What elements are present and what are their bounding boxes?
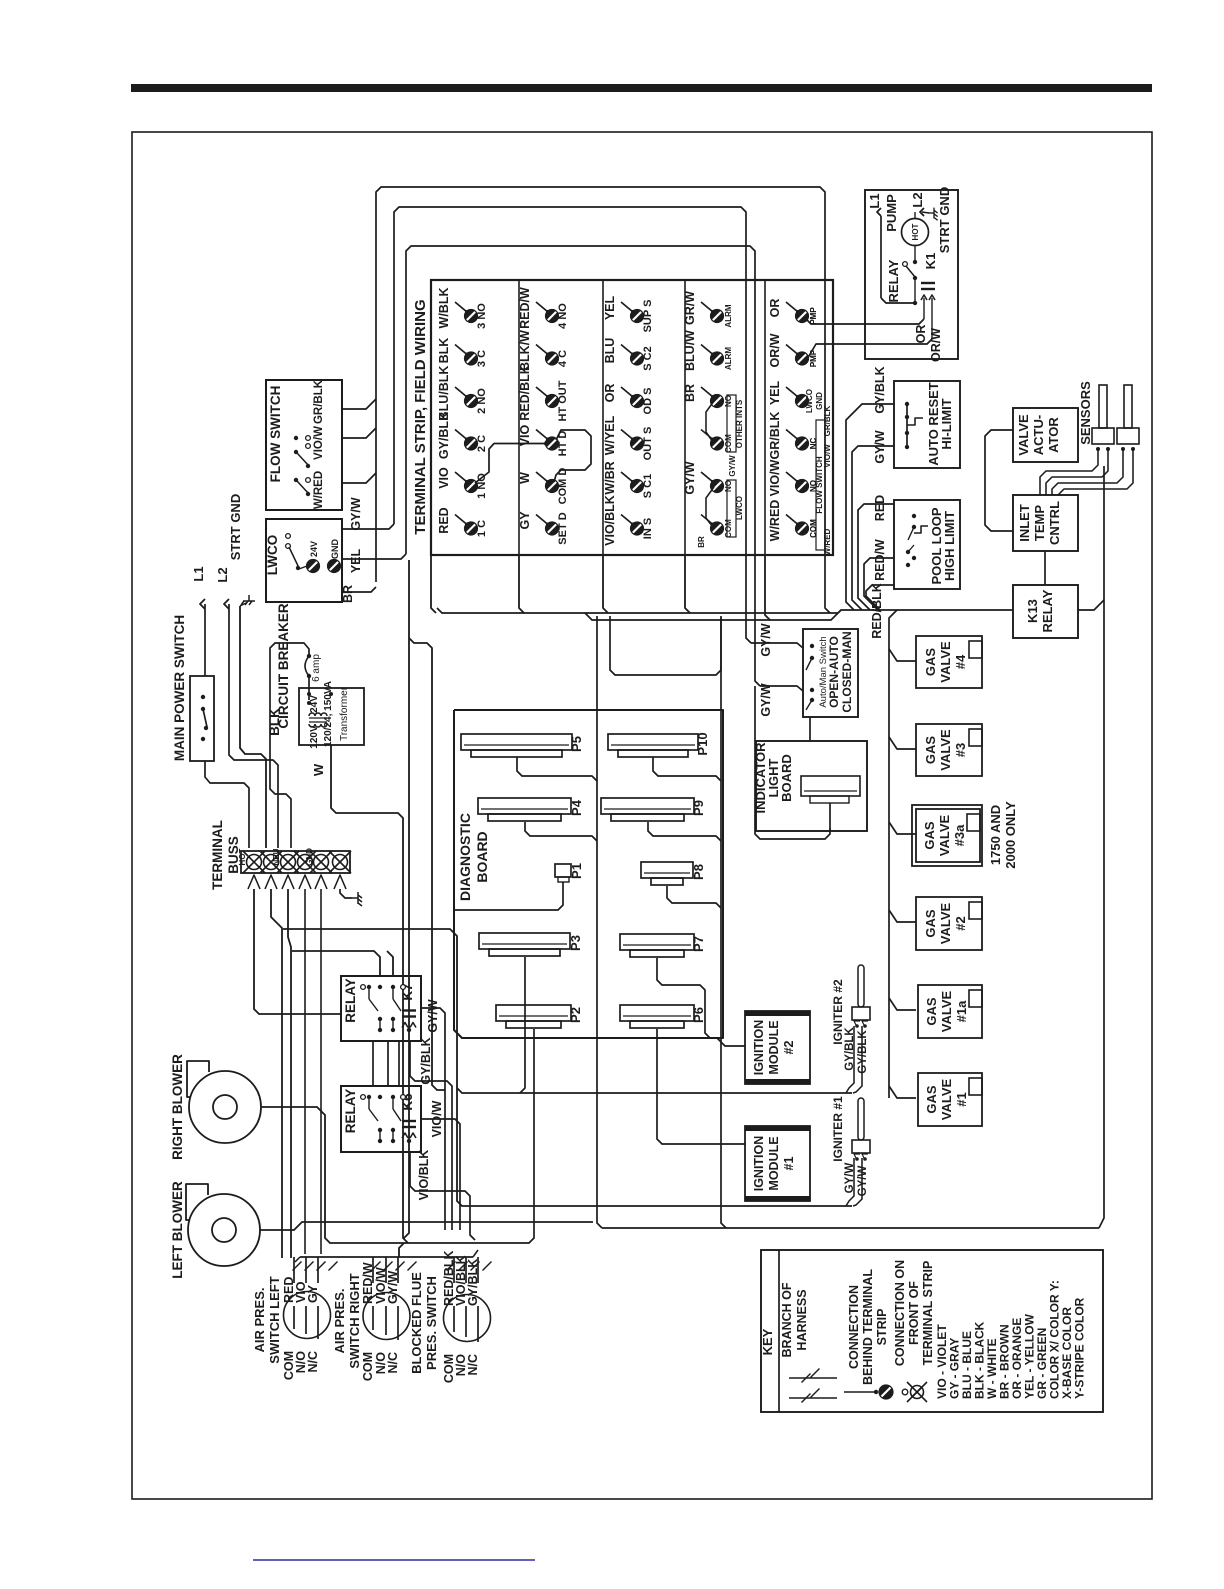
svg-text:P10: P10: [695, 732, 710, 755]
footer link underline: [253, 1559, 535, 1561]
svg-text:AIR PRES.: AIR PRES.: [332, 1288, 347, 1353]
connector P6: [620, 1005, 694, 1021]
svg-text:BOARD: BOARD: [779, 754, 794, 802]
svg-text:MODULE: MODULE: [767, 1136, 781, 1190]
gas valve #3a feed: [889, 822, 916, 834]
igniter IGNITER #1: [858, 1098, 864, 1140]
terminal COM (W/RED): [786, 515, 798, 525]
left harness vertical px432: [409, 638, 445, 1090]
svg-text:RED/W: RED/W: [873, 539, 887, 581]
svg-text:L2: L2: [910, 192, 925, 207]
svg-text:2000 ONLY: 2000 ONLY: [1003, 801, 1018, 869]
svg-text:NC: NC: [809, 438, 818, 450]
svg-text:GY/W: GY/W: [857, 1166, 869, 1197]
harness branch slashes: [293, 1262, 302, 1271]
lwco contacts: [286, 534, 291, 539]
flow switch wires to trunk A: [342, 399, 376, 409]
svg-text:#1: #1: [954, 1092, 969, 1106]
transformer W output wire: [331, 745, 408, 1243]
K6 output wires: [421, 1119, 460, 1230]
terminal HT OUT (RED/BLK): [536, 387, 548, 397]
P7 wire: [657, 958, 710, 1038]
svg-text:W: W: [311, 763, 326, 776]
svg-text:YEL: YEL: [349, 548, 363, 573]
svg-text:STRIP: STRIP: [875, 1309, 889, 1346]
svg-text:GAS: GAS: [923, 648, 938, 677]
svg-text:VIO/W: VIO/W: [313, 426, 325, 460]
connector P4: [478, 798, 571, 814]
buss lead funnel 3: [282, 875, 294, 889]
svg-text:4 NO: 4 NO: [557, 303, 569, 329]
svg-text:120V: 120V: [309, 725, 320, 749]
svg-text:RED/W: RED/W: [518, 287, 532, 329]
svg-text:P2: P2: [568, 1007, 583, 1023]
svg-text:INLET: INLET: [1017, 504, 1032, 542]
igniter IGNITER #2: [858, 965, 864, 1007]
pump relay K1 box: [865, 190, 958, 359]
svg-text:AIR PRES.: AIR PRES.: [252, 1287, 267, 1352]
svg-text:OR/W: OR/W: [768, 333, 782, 367]
K7 output wires: [421, 1008, 445, 1230]
svg-text:RELAY: RELAY: [886, 259, 901, 302]
svg-text:OD S: OD S: [642, 388, 654, 415]
svg-text:1 C: 1 C: [476, 520, 488, 537]
svg-text:P1: P1: [569, 863, 584, 879]
svg-text:1750 AND: 1750 AND: [988, 805, 1003, 865]
terminal SUP S (YEL): [621, 302, 633, 312]
svg-text:RED/W: RED/W: [361, 1262, 375, 1304]
svg-text:PMP: PMP: [809, 307, 818, 325]
terminal S C2 (BLU): [621, 345, 633, 355]
svg-text:HARNESS: HARNESS: [795, 1289, 809, 1350]
svg-text:GY/BLK: GY/BLK: [873, 366, 887, 413]
gas valve #3 feed: [889, 737, 916, 749]
svg-text:VIO/BLK: VIO/BLK: [417, 1150, 431, 1201]
svg-text:2 NO: 2 NO: [476, 388, 488, 414]
strt gnd symbol and GND conductor: [241, 595, 255, 605]
branch symbols: [789, 1377, 837, 1379]
svg-text:#1a: #1a: [954, 1000, 969, 1022]
svg-text:GY/BLK: GY/BLK: [466, 1259, 480, 1306]
gas valve #1a feed: [889, 998, 916, 1010]
wire harness trunk A (BR / flow switch loop): [376, 187, 830, 613]
svg-text:DIAGNOSTIC: DIAGNOSTIC: [457, 813, 473, 901]
svg-text:STRT GND: STRT GND: [937, 187, 952, 253]
lwco GND screw: [328, 560, 341, 573]
svg-text:GY/W: GY/W: [683, 461, 697, 495]
GY/W wire to switch lower: [760, 686, 803, 691]
P2 wire: [404, 1029, 534, 1243]
svg-text:IGNITION: IGNITION: [752, 1020, 766, 1076]
gas valve #3a: [912, 805, 982, 866]
svg-text:RELAY: RELAY: [343, 978, 358, 1023]
inlet to K13 wire: [1044, 551, 1046, 585]
trunk T2 down from bus: [721, 616, 726, 1228]
svg-text:RELAY: RELAY: [343, 1089, 358, 1134]
svg-text:VALVE: VALVE: [937, 814, 952, 856]
svg-text:W/RED: W/RED: [823, 528, 832, 555]
svg-text:W/YEL: W/YEL: [603, 415, 617, 455]
svg-text:OR/W: OR/W: [929, 328, 943, 362]
flow switch box: [266, 380, 342, 510]
breaker feed wire: [270, 643, 309, 848]
svg-text:GAS: GAS: [924, 1085, 939, 1114]
terminal NO (BR): [701, 387, 713, 397]
K6-K7 link wires: [372, 1041, 374, 1086]
FLOW SWITCH bracket: [816, 420, 825, 550]
svg-text:GY: GY: [518, 511, 532, 530]
pressure switch AIR PRES. SWITCH LEFT: [284, 1292, 331, 1339]
ignition module #1: [745, 1126, 810, 1201]
svg-text:COM: COM: [724, 519, 733, 538]
buss lead funnel 5: [315, 875, 327, 889]
OTHER INTS bracket: [727, 395, 736, 452]
indicator connector: [801, 776, 860, 796]
connector P2: [496, 1005, 571, 1021]
svg-text:HT OUT: HT OUT: [557, 380, 569, 421]
svg-text:L1: L1: [191, 566, 206, 581]
connector P8: [641, 862, 693, 878]
terminal ALRM (GR/W): [701, 302, 713, 312]
LEFT BLOWER symbol: [188, 1194, 260, 1266]
ignition module #2: [745, 1011, 810, 1084]
svg-text:OUT S: OUT S: [642, 427, 654, 461]
svg-text:GAS: GAS: [923, 909, 938, 938]
trunk T1 down from bus: [597, 616, 602, 1228]
jumper loop HT D to COM D: [554, 430, 591, 482]
group divider tails to bus: [431, 555, 436, 613]
ORW wire to PMP: [806, 339, 932, 361]
svg-text:BR: BR: [341, 585, 355, 603]
svg-text:ALRM: ALRM: [724, 304, 733, 327]
svg-text:FLOW SWITCH: FLOW SWITCH: [268, 386, 283, 483]
lwco output YEL: [342, 554, 406, 559]
gas valve #2 feed: [889, 910, 916, 922]
svg-text:#3: #3: [953, 743, 968, 757]
buss screw 4: [298, 855, 313, 870]
svg-text:SET D: SET D: [557, 512, 569, 544]
harness H1 to igniter area: [283, 929, 852, 1206]
HOT pump circle: [902, 219, 929, 246]
K1 contact: [880, 216, 882, 298]
svg-text:NO: NO: [724, 395, 733, 407]
svg-text:VALVE: VALVE: [939, 1078, 954, 1120]
gas valve #1 feed: [889, 1086, 916, 1098]
bus line B2: [766, 610, 841, 620]
svg-text:RED/BLK: RED/BLK: [870, 583, 884, 639]
svg-text:BR: BR: [697, 536, 706, 548]
svg-text:HOT: HOT: [238, 848, 247, 865]
gas valve #4: [916, 636, 982, 688]
svg-text:BLU: BLU: [603, 338, 617, 364]
breaker to transformer wire: [308, 676, 310, 700]
terminal buss strip: [241, 851, 350, 873]
svg-text:VALVE: VALVE: [938, 729, 953, 771]
lwco output GY/W: [342, 524, 394, 529]
svg-text:VALVE: VALVE: [938, 641, 953, 683]
group divider lines: [518, 280, 520, 555]
terminal NO (VIO/W): [786, 472, 798, 482]
inlet temp cntrl box: [1013, 495, 1078, 551]
buss wire 1 down to K7: [254, 889, 341, 1014]
pool loop internals: [912, 514, 916, 518]
K13 relay box: [1013, 585, 1078, 638]
svg-text:IGNITION: IGNITION: [752, 1136, 766, 1192]
behind symbol: [844, 1391, 876, 1393]
svg-text:N/C: N/C: [386, 1352, 400, 1374]
auto man switch box: [803, 629, 858, 717]
svg-text:FRONT OF: FRONT OF: [907, 1281, 921, 1345]
right long trunk down to bottom loop: [1099, 466, 1104, 1228]
svg-text:OPEN-AUTO: OPEN-AUTO: [827, 636, 841, 708]
relay K7 box: [341, 976, 421, 1041]
LWCO bracket group4: [727, 480, 736, 537]
svg-text:W: W: [518, 472, 532, 484]
svg-text:OR: OR: [603, 384, 617, 403]
terminal 3 NO (W/BLK): [455, 302, 467, 312]
svg-text:HOT: HOT: [911, 223, 920, 240]
svg-text:GAS: GAS: [924, 997, 939, 1026]
svg-text:IGNITER #1: IGNITER #1: [831, 1096, 845, 1162]
auto reset hi-limit box: [894, 381, 960, 468]
terminal strip field wiring box: [431, 280, 833, 555]
svg-text:#3a: #3a: [952, 824, 967, 846]
svg-text:S C2: S C2: [642, 346, 654, 370]
svg-text:2 C: 2 C: [476, 435, 488, 452]
svg-text:RED: RED: [873, 495, 887, 521]
sensor: [1124, 385, 1132, 428]
terminal (YEL): [786, 387, 798, 397]
bus line B1 right of K13 to trunk: [1078, 600, 1104, 610]
svg-text:24V: 24V: [309, 541, 319, 557]
diagnostic board box: [454, 710, 723, 1038]
terminal 1 C (RED): [455, 515, 467, 525]
svg-text:N/C: N/C: [466, 1354, 480, 1376]
svg-text:RELAY: RELAY: [1040, 589, 1055, 632]
svg-text:NEU: NEU: [272, 848, 281, 865]
svg-text:P7: P7: [691, 936, 706, 952]
svg-text:CONNECTION: CONNECTION: [847, 1285, 861, 1369]
pool loop high limit box: [894, 500, 960, 589]
svg-text:LEFT BLOWER: LEFT BLOWER: [170, 1181, 185, 1279]
gas valve #4 feed: [889, 649, 916, 661]
svg-text:GY/W: GY/W: [759, 623, 773, 657]
svg-text:CONNECTION ON: CONNECTION ON: [893, 1260, 907, 1366]
RED/BLK wire: [866, 585, 894, 610]
top rule bar: [131, 84, 1152, 92]
svg-text:N/C: N/C: [306, 1351, 320, 1373]
svg-text:RIGHT BLOWER: RIGHT BLOWER: [170, 1054, 185, 1160]
svg-text:YEL: YEL: [603, 295, 617, 320]
OR wire to PMP: [806, 319, 924, 324]
connector P3: [479, 933, 570, 949]
terminal 2 C (GY/BLK): [455, 430, 467, 440]
buss screw 6: [333, 855, 348, 870]
limit wire bundle verticals: [846, 404, 894, 610]
svg-text:BOARD: BOARD: [474, 831, 490, 882]
svg-text:CLOSED-MAN: CLOSED-MAN: [840, 631, 854, 712]
terminal 3 C (BLK): [455, 345, 467, 355]
svg-text:GR/W: GR/W: [683, 291, 697, 325]
svg-text:GY/W: GY/W: [426, 999, 440, 1033]
svg-text:PUMP: PUMP: [884, 194, 899, 232]
harness H2 to K7 pins: [292, 951, 380, 976]
svg-text:TERMINAL STRIP: TERMINAL STRIP: [921, 1261, 935, 1366]
circuit breaker symbol: [307, 654, 311, 658]
svg-text:3 C: 3 C: [476, 350, 488, 367]
buss wire 6 to gnd: [340, 889, 352, 898]
indicator light board box: [756, 741, 867, 831]
transformer box: [299, 688, 364, 745]
svg-text:BR: BR: [683, 384, 697, 402]
svg-text:BLK/W: BLK/W: [518, 330, 532, 371]
bus line B1 to K13 relay: [437, 608, 1013, 613]
svg-text:#2: #2: [953, 916, 968, 930]
terminal SET D (GY): [536, 515, 548, 525]
svg-text:#2: #2: [782, 1041, 796, 1055]
svg-text:W/RED: W/RED: [768, 500, 782, 542]
svg-text:P6: P6: [691, 1007, 706, 1023]
svg-text:BRANCH OF: BRANCH OF: [780, 1282, 794, 1357]
lwco 24V screw: [307, 560, 320, 573]
terminal OUT S (W/YEL): [621, 430, 633, 440]
relay K6 box: [341, 1086, 421, 1152]
svg-text:GAS: GAS: [923, 736, 938, 765]
transformer winding symbol: [309, 713, 315, 716]
P6 wire: [657, 1029, 745, 1144]
P5 wire: [517, 757, 597, 781]
svg-text:GND: GND: [330, 539, 340, 560]
gas valve #2: [916, 897, 982, 950]
wire harness trunk B (GY/W loop): [394, 207, 751, 643]
svg-text:ACTU-: ACTU-: [1031, 415, 1046, 455]
svg-text:6 amp: 6 amp: [311, 654, 322, 682]
svg-text:COM: COM: [724, 434, 733, 453]
svg-text:VIO: VIO: [437, 467, 451, 489]
pressure switch bus: [300, 1256, 473, 1258]
svg-text:YEL: YEL: [768, 380, 782, 405]
connector P10: [608, 734, 698, 750]
terminal 1 NO (VIO): [455, 472, 467, 482]
svg-text:W/RED: W/RED: [313, 471, 325, 509]
svg-text:ALRM: ALRM: [724, 347, 733, 370]
RIGHT BLOWER symbol: [189, 1071, 261, 1143]
terminal S C1 (W/BR): [621, 472, 633, 482]
svg-text:BLU/W: BLU/W: [683, 330, 697, 371]
svg-text:STRT GND: STRT GND: [228, 494, 243, 560]
svg-text:IN S: IN S: [642, 518, 654, 539]
main power switch wire to HOT: [205, 761, 249, 848]
left blower wire: [260, 1222, 593, 1230]
buss lead funnel 6: [334, 875, 346, 889]
svg-text:P9: P9: [691, 800, 706, 816]
auto man to indicator wire: [809, 717, 811, 741]
svg-text:VALVE: VALVE: [938, 902, 953, 944]
pressure switch AIR PRES. SWITCH RIGHT: [363, 1293, 410, 1340]
K1 coil: [921, 282, 935, 284]
svg-text:RED/BLK: RED/BLK: [518, 365, 532, 421]
terminal OD S (OR): [621, 387, 633, 397]
buss screw 5: [314, 855, 329, 870]
key box: [761, 1250, 1103, 1412]
outer border frame: [132, 132, 1152, 1499]
terminal COM D (W): [536, 472, 548, 482]
svg-text:W/BR: W/BR: [603, 461, 617, 494]
bus riser from loop2: [399, 1243, 404, 1257]
flow switch contacts: [294, 436, 298, 440]
connector P7: [620, 934, 694, 950]
auto man contacts: [810, 644, 814, 648]
buss lead funnel 2: [265, 875, 277, 889]
svg-text:LWCO: LWCO: [805, 389, 814, 413]
svg-text:TEMP: TEMP: [1032, 505, 1047, 541]
svg-text:LWCO: LWCO: [735, 496, 744, 520]
terminal NO (GY/W): [701, 472, 713, 482]
svg-text:VIO/W: VIO/W: [768, 459, 782, 496]
svg-text:BLOCKED FLUE: BLOCKED FLUE: [409, 1272, 424, 1374]
LWCO box: [266, 519, 342, 602]
svg-text:GY/W: GY/W: [386, 1270, 400, 1304]
buss wire 2 down: [271, 889, 282, 1258]
buss wire 4 down: [304, 889, 306, 1254]
gas valve #1: [918, 1073, 982, 1126]
svg-text:K1: K1: [923, 253, 938, 270]
bottom loop wire: [602, 1227, 1099, 1229]
valve actuator wire: [985, 430, 1013, 531]
sensor: [1099, 385, 1107, 428]
svg-text:COM: COM: [809, 519, 818, 538]
terminal ALRM (BLU/W): [701, 345, 713, 355]
main power switch box: [190, 676, 214, 761]
svg-text:TERMINAL STRIP, FIELD WIRING: TERMINAL STRIP, FIELD WIRING: [412, 299, 429, 534]
front symbol: [902, 1389, 908, 1395]
K1 coil leads: [923, 298, 925, 319]
gas valve #3: [916, 724, 982, 776]
svg-text:HI-LIMIT: HI-LIMIT: [939, 398, 954, 449]
svg-text:GR/BLK: GR/BLK: [313, 379, 325, 424]
connector P9: [601, 798, 694, 814]
wire harness trunk C (YEL loop): [406, 246, 760, 686]
svg-text:PMP: PMP: [809, 349, 818, 367]
svg-text:L1: L1: [867, 193, 882, 208]
svg-text:GR/BLK: GR/BLK: [823, 405, 832, 436]
group4 inner links: [706, 401, 714, 444]
svg-text:OR: OR: [768, 299, 782, 318]
valve actuator box: [1013, 408, 1078, 462]
P3 wire: [520, 957, 525, 1093]
P8 wire: [667, 886, 721, 908]
svg-text:BEHIND TERMINAL: BEHIND TERMINAL: [861, 1269, 875, 1385]
connector P5: [461, 734, 572, 750]
buss screw 1: [247, 855, 262, 870]
pressure switch BLOCKED FLUE PRES. SWITCH: [444, 1295, 491, 1342]
svg-text:L2: L2: [215, 567, 230, 582]
svg-text:MAIN POWER SWITCH: MAIN POWER SWITCH: [172, 615, 187, 761]
svg-text:SWITCH LEFT: SWITCH LEFT: [267, 1276, 282, 1363]
svg-text:GY/W: GY/W: [349, 497, 363, 531]
P10 wire: [653, 757, 721, 781]
trunk C extension to indicator connector: [755, 686, 830, 839]
svg-text:GND: GND: [305, 848, 314, 866]
hi-limit internals: [906, 404, 908, 447]
lwco output BR: [342, 587, 376, 592]
svg-text:P8: P8: [691, 864, 706, 880]
P9 wire: [648, 822, 721, 841]
pump strt gnd symbol: [922, 212, 929, 213]
svg-text:MODULE: MODULE: [767, 1020, 781, 1074]
svg-text:VIO/BLK: VIO/BLK: [603, 495, 617, 546]
left harness vertical px409: [404, 560, 409, 1238]
